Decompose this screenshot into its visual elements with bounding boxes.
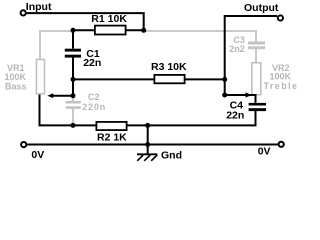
junction node VR1 wiper [71,93,76,98]
wire ground rail [27,144,278,146]
ground symbol [137,154,157,161]
svg-text:100K: 100K [5,72,27,82]
potentiometer VR2 body [252,63,261,95]
resistor R2 [96,122,126,130]
wire VR1 wiper arm [51,95,73,97]
svg-text:Gnd: Gnd [161,150,182,162]
svg-text:22n: 22n [226,109,244,121]
svg-text:Output: Output [244,2,279,14]
wire gray wiper node to C2 [72,96,74,101]
wire ground stub [147,145,149,155]
svg-text:R2 1K: R2 1K [97,132,127,144]
wire R2 right lead to C4 bottom [127,111,256,126]
junction node ground rail [145,142,150,147]
svg-text:0V: 0V [31,149,44,161]
wire gray C2 to rail [72,109,74,125]
svg-text:100K: 100K [270,72,292,82]
svg-text:Input: Input [26,1,52,13]
wire VR2 wiper arm to C4 top [225,95,256,103]
svg-text:Bass: Bass [5,82,27,92]
junction node C2 rail [71,123,76,128]
wire gray C3 to VR2 [255,49,257,63]
capacitor C2 plates [66,101,81,109]
wire R3 right lead [185,78,225,80]
svg-text:2n2: 2n2 [229,44,245,54]
capacitor C1 plates [65,49,81,58]
resistor R1 [95,26,126,35]
svg-text:R1 10K: R1 10K [91,13,127,25]
arrowhead VR1 wiper [47,93,53,98]
arrowhead VR2 wiper [246,92,252,97]
terminal output [278,15,283,20]
junction node R1 left [71,28,76,33]
svg-text:C2: C2 [88,92,100,102]
capacitor C4 plates [249,103,266,111]
svg-text:R3 10K: R3 10K [151,61,187,73]
wire R1 right lead [126,29,144,31]
wire VR1 bottom to R2 left lead [40,95,97,126]
svg-text:22n: 22n [83,57,101,69]
svg-text:Treble: Treble [264,81,299,91]
capacitor C3 plates [248,42,265,50]
wire output vertical and horizontal [225,16,278,95]
junction node R2 rail [145,123,150,128]
terminal input [21,10,26,15]
svg-text:220n: 220n [82,102,106,112]
wire node to C1 top [72,30,74,48]
junction node R3 right [222,77,227,82]
junction node VR2 wiper [222,93,227,98]
wire input horizontal and down to R1 right node [27,13,144,30]
resistor R3 [154,75,184,83]
wire gray top to C3 [145,31,257,42]
junction node R1 right [141,28,146,33]
wire ground branch vertical [147,125,149,144]
wire gray VR1 top feed [40,31,72,59]
wire R1 left lead [73,29,95,31]
potentiometer VR1 body [36,59,44,93]
junction node R3 left [71,77,76,82]
terminal 0V right [279,142,284,147]
terminal 0V left [21,142,26,147]
wire C1 bottom to wiper node [72,58,74,97]
wire R3 left lead [73,78,154,80]
svg-text:0V: 0V [258,146,271,158]
